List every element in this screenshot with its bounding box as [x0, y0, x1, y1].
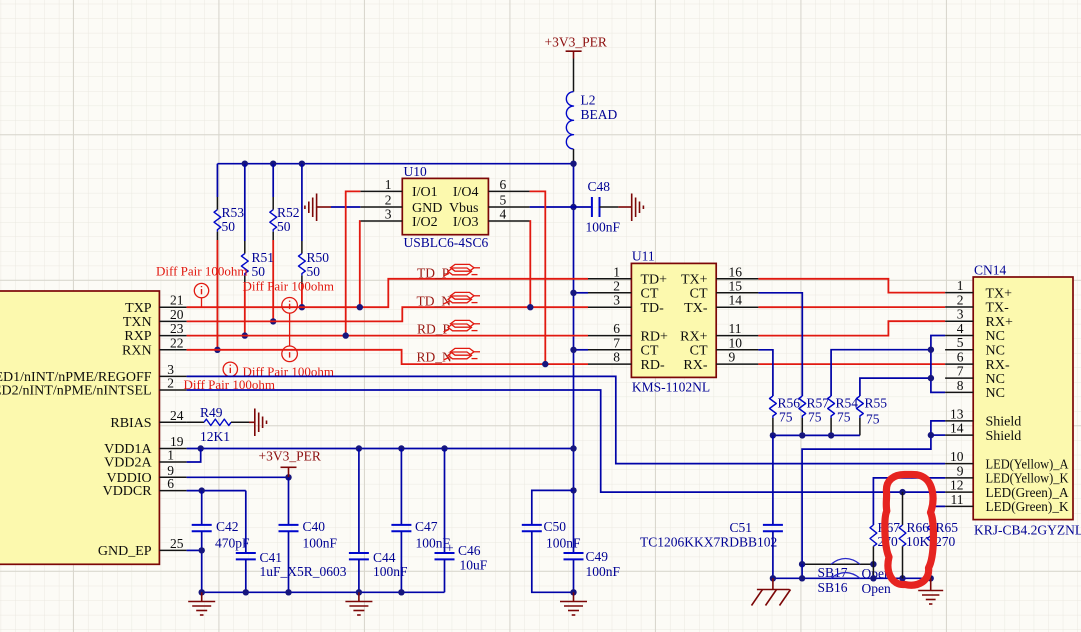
svg-text:75: 75 [866, 412, 880, 427]
svg-text:3: 3 [957, 307, 964, 322]
wire bottom ground bus [199, 589, 445, 595]
svg-text:CN14: CN14 [974, 263, 1007, 278]
svg-text:TX+: TX+ [681, 273, 708, 288]
U10 pin 3 [360, 207, 402, 222]
PHY pin 23 RXP [159, 321, 186, 336]
svg-text:+3V3_PER: +3V3_PER [259, 449, 321, 464]
svg-text:LED(Green)_A: LED(Green)_A [986, 486, 1070, 501]
capacitor C46 10uF polarized [435, 449, 488, 593]
U11 pin 3 [588, 293, 631, 308]
svg-text:2: 2 [167, 376, 174, 391]
svg-text:Open: Open [862, 581, 891, 596]
resistor R53 50 [214, 164, 244, 240]
svg-text:LED2/nINT/nPME/nINTSEL: LED2/nINT/nPME/nINTSEL [0, 384, 152, 399]
wire RXN to RD_N [187, 350, 588, 364]
svg-text:6: 6 [167, 476, 174, 491]
node Vbus/C48 junction [570, 204, 576, 210]
resistor R57 75 [758, 293, 829, 436]
U11 pin 10 [716, 335, 758, 350]
svg-text:10uF: 10uF [460, 558, 488, 573]
directive Diff Pair 100ohm (LED1 row) [223, 362, 334, 379]
CN14 pin 10 [945, 449, 973, 464]
U10 pin 2 [360, 193, 402, 208]
PHY pin 24 RBIAS [159, 408, 186, 423]
svg-text:R57: R57 [807, 396, 830, 411]
wire TXN to TD_N [187, 307, 588, 321]
svg-text:TD_P: TD_P [417, 266, 449, 281]
svg-text:100nF: 100nF [586, 564, 621, 579]
svg-text:RD_P: RD_P [417, 322, 450, 337]
capacitor C50 100nF [522, 490, 581, 592]
svg-text:CT: CT [641, 344, 659, 359]
U11 pin 11 [716, 321, 758, 336]
svg-text:VDD2A: VDD2A [104, 456, 152, 471]
CN14 pin 2 [945, 293, 973, 308]
U10 pin 4 [488, 207, 529, 222]
ground earth (U10 GND pin2) [305, 194, 360, 222]
capacitor C51 TC1206KKX7RDBB102 [640, 435, 783, 578]
svg-text:TD_N: TD_N [417, 294, 452, 309]
power port +3V3_PER (top) [545, 35, 607, 59]
svg-text:9: 9 [957, 463, 964, 478]
U11 pin 1 [588, 264, 631, 279]
svg-text:R50: R50 [307, 250, 330, 265]
net label TD_N [417, 292, 481, 308]
svg-text:RD_N: RD_N [417, 350, 453, 365]
wire NC pins 4-5-7-8 tie [928, 336, 945, 393]
CN14 pin 4 [945, 321, 973, 336]
U11 pin 9 [716, 350, 758, 365]
wire power to L2 [573, 59, 575, 92]
svg-text:8: 8 [613, 350, 620, 365]
ground earth (RBIAS) [249, 409, 267, 437]
svg-text:Vbus: Vbus [449, 201, 479, 216]
svg-text:20: 20 [170, 307, 184, 322]
svg-text:U11: U11 [632, 249, 655, 264]
svg-text:RX-: RX- [986, 358, 1010, 373]
svg-text:R49: R49 [200, 405, 223, 420]
resistor R52 50 [270, 164, 300, 240]
wire Shield pins 13-14 to SB17 [802, 421, 945, 564]
capacitor C49 100nF [564, 549, 621, 579]
CN14 pin 3 [945, 307, 973, 322]
svg-text:Diff Pair 100ohm: Diff Pair 100ohm [156, 264, 247, 279]
svg-text:R54: R54 [836, 396, 859, 411]
ground GND (C49) [560, 592, 587, 615]
svg-text:CT: CT [690, 287, 708, 302]
CN14 pin 13 [945, 406, 973, 421]
wire TX- to CN14 pin2 [758, 306, 945, 308]
svg-text:2: 2 [613, 278, 620, 293]
resistor R49 12K1 [187, 405, 249, 444]
CN14 pin 9 [945, 463, 973, 478]
wire RX+ to CN14 pin3 [758, 321, 945, 335]
capacitor C44 100nF [349, 449, 408, 593]
svg-text:KRJ-CB4.2GYZNL: KRJ-CB4.2GYZNL [974, 523, 1081, 538]
svg-text:TXP: TXP [125, 301, 152, 316]
svg-text:TX+: TX+ [986, 286, 1013, 301]
svg-text:50: 50 [307, 264, 321, 279]
U11 pin 2 [588, 278, 631, 293]
U11 pin 8 [588, 350, 631, 365]
svg-text:GND_EP: GND_EP [98, 544, 152, 559]
svg-text:100nF: 100nF [303, 535, 338, 550]
svg-text:1: 1 [385, 177, 392, 192]
svg-text:100nF: 100nF [373, 564, 408, 579]
svg-text:50: 50 [277, 219, 291, 234]
svg-text:I/O1: I/O1 [412, 185, 438, 200]
svg-text:23: 23 [170, 321, 184, 336]
CN14 pin 11 [945, 492, 973, 507]
PHY pin 1 VDD2A [159, 448, 186, 463]
resistor R55 75 [857, 378, 931, 435]
wire U11 pin7 CT to +3V3 [570, 347, 588, 353]
wire R53 to RXN [214, 240, 220, 353]
svg-text:TC1206KKX7RDBB102: TC1206KKX7RDBB102 [640, 534, 777, 549]
CN14 pin 7 [945, 364, 973, 379]
wire TXP to TD_P [187, 279, 588, 307]
net label RD_P [417, 320, 480, 336]
svg-text:8: 8 [957, 378, 964, 393]
capacitor C40 100nF [279, 477, 338, 592]
wire R52 to TXN [270, 240, 276, 325]
capacitor C41 1uF [236, 491, 347, 593]
svg-text:C46: C46 [458, 543, 481, 558]
svg-text:270: 270 [935, 534, 956, 549]
svg-text:4: 4 [500, 207, 507, 222]
svg-text:RX-: RX- [683, 358, 707, 373]
svg-text:C40: C40 [303, 519, 326, 534]
svg-text:12: 12 [950, 478, 964, 493]
svg-text:R66: R66 [907, 520, 930, 535]
CN14 pin 14 [945, 421, 973, 436]
svg-text:5: 5 [500, 193, 507, 208]
svg-text:3: 3 [613, 293, 620, 308]
svg-text:+3V3_PER: +3V3_PER [545, 35, 607, 50]
svg-text:10K: 10K [906, 534, 930, 549]
wire VDD1A bus [187, 445, 577, 451]
svg-text:RX+: RX+ [680, 329, 707, 344]
svg-text:RD-: RD- [641, 358, 665, 373]
svg-text:R51: R51 [252, 250, 275, 265]
capacitor C42 470pF [192, 491, 250, 593]
wire GND_EP [187, 547, 205, 553]
wire LED1 to CN14 pin10 [187, 376, 946, 463]
CN14 pin 5 [945, 335, 973, 350]
svg-text:25: 25 [170, 536, 184, 551]
svg-text:TX-: TX- [986, 301, 1010, 316]
svg-text:TXN: TXN [123, 315, 152, 330]
PHY pin 19 VDD1A [159, 434, 186, 449]
wire VDDIO [187, 474, 292, 480]
svg-text:NC: NC [986, 329, 1005, 344]
svg-text:5: 5 [957, 335, 964, 350]
PHY pin 21 TXP [159, 293, 186, 308]
CN14 pin 6 [945, 350, 973, 365]
svg-text:R53: R53 [222, 205, 245, 220]
CN14 pin 8 [945, 378, 973, 393]
svg-text:C44: C44 [373, 550, 396, 565]
wire R50 to TXP [299, 284, 305, 310]
inductor L2 BEAD [566, 92, 617, 149]
directive Diff Pair 100ohm (pair marker) [243, 279, 334, 362]
svg-text:75: 75 [837, 410, 851, 425]
svg-text:RD+: RD+ [641, 329, 668, 344]
svg-text:TD+: TD+ [641, 273, 668, 288]
svg-text:U10: U10 [404, 164, 427, 179]
svg-text:24: 24 [170, 408, 184, 423]
CN14 pin 1 [945, 278, 973, 293]
wire R51 to RXP [242, 284, 248, 339]
power port +3V3_PER (VDDIO) [259, 449, 321, 478]
wire SB17 row to SB16 row [802, 564, 873, 578]
wire U10 Vbus to +3V3 [530, 206, 574, 208]
svg-text:I/O2: I/O2 [412, 215, 438, 230]
svg-text:L2: L2 [581, 93, 596, 108]
wire main +3V3 vertical [573, 164, 575, 593]
svg-text:470pF: 470pF [215, 535, 250, 550]
resistor R50 50 [299, 164, 330, 284]
svg-text:CT: CT [641, 287, 659, 302]
svg-text:C49: C49 [586, 549, 609, 564]
resistor R65 270 [927, 506, 958, 578]
U10 pin 1 [360, 177, 402, 192]
PHY pin 25 GND_EP [159, 536, 186, 551]
resistor R56 75 [758, 350, 800, 436]
svg-text:SB16: SB16 [818, 580, 848, 595]
svg-text:15: 15 [729, 278, 743, 293]
ground GND (R65) [918, 578, 943, 604]
svg-text:6: 6 [613, 321, 620, 336]
svg-text:R52: R52 [277, 205, 300, 220]
svg-text:NC: NC [986, 343, 1005, 358]
svg-text:NC: NC [986, 386, 1005, 401]
svg-text:3: 3 [385, 207, 392, 222]
net label TD_P [417, 264, 480, 280]
wire CT termination bus [770, 432, 860, 438]
svg-text:7: 7 [957, 364, 964, 379]
PHY pin 3 LED1 [159, 362, 186, 377]
wire TX+ to CN14 pin1 [758, 279, 945, 293]
ground chassis (C51) [752, 578, 791, 605]
svg-text:CT: CT [690, 344, 708, 359]
svg-text:14: 14 [729, 293, 743, 308]
svg-text:C42: C42 [216, 519, 239, 534]
svg-text:BEAD: BEAD [581, 107, 618, 122]
svg-text:RBIAS: RBIAS [110, 416, 151, 431]
wire termination rail [217, 161, 576, 167]
svg-text:C51: C51 [730, 520, 753, 535]
solder bridge SB17 Open [799, 559, 891, 582]
U11 pin 7 [588, 335, 631, 350]
wire U10 pin4 to TD_N net [527, 221, 533, 310]
svg-text:50: 50 [252, 264, 266, 279]
svg-text:C48: C48 [588, 179, 611, 194]
solder bridge SB16 Open [770, 573, 934, 596]
svg-text:Shield: Shield [986, 429, 1022, 444]
svg-text:R67: R67 [878, 520, 901, 535]
svg-text:1uF_X5R_0603: 1uF_X5R_0603 [260, 564, 347, 579]
resistor R51 50 [241, 164, 274, 284]
svg-text:C41: C41 [260, 550, 283, 565]
wire L2 to rail [573, 149, 575, 164]
svg-text:R56: R56 [778, 396, 801, 411]
U10 pin 5 [488, 193, 529, 208]
svg-text:10: 10 [729, 335, 743, 350]
wire RXP to RD_P [187, 335, 588, 337]
svg-text:14: 14 [950, 421, 964, 436]
svg-text:11: 11 [951, 492, 964, 507]
ground earth (C48) [618, 194, 643, 222]
svg-text:1: 1 [613, 264, 620, 279]
red marker ellipse annotation [885, 474, 934, 585]
wire RX- to CN14 pin6 [758, 363, 945, 365]
svg-text:C50: C50 [544, 519, 567, 534]
svg-text:10: 10 [950, 449, 964, 464]
PHY pin 6 VDDCR [159, 476, 186, 491]
svg-text:1: 1 [957, 278, 964, 293]
svg-text:RX+: RX+ [986, 315, 1013, 330]
U11 pin 6 [588, 321, 631, 336]
U10 pin 6 [488, 177, 529, 192]
PHY pin 20 TXN [159, 307, 186, 322]
net label RD_N [417, 348, 481, 364]
svg-text:2: 2 [957, 293, 964, 308]
svg-text:R65: R65 [936, 520, 959, 535]
svg-text:VDDCR: VDDCR [103, 484, 153, 499]
svg-text:2: 2 [385, 193, 392, 208]
svg-text:LED(Yellow)_K: LED(Yellow)_K [986, 472, 1069, 487]
svg-text:TD-: TD- [641, 301, 665, 316]
directive Diff Pair 100ohm (TXP) [156, 264, 247, 308]
svg-text:1: 1 [167, 448, 174, 463]
svg-text:13: 13 [950, 406, 964, 421]
wire LED2 to CN14 pin12 [187, 390, 946, 495]
svg-text:LED(Green)_K: LED(Green)_K [986, 500, 1069, 515]
svg-text:21: 21 [170, 293, 184, 308]
svg-text:75: 75 [808, 410, 822, 425]
svg-text:I/O3: I/O3 [453, 215, 479, 230]
svg-text:9: 9 [729, 350, 736, 365]
svg-text:KMS-1102NL: KMS-1102NL [632, 380, 710, 395]
svg-text:75: 75 [779, 410, 793, 425]
resistor R66 10K [899, 492, 929, 578]
PHY IC block (left, partially off-canvas) [0, 291, 159, 564]
resistor R67 270 [870, 478, 945, 564]
svg-text:LED(Yellow)_A: LED(Yellow)_A [986, 457, 1070, 472]
svg-text:22: 22 [170, 335, 184, 350]
node main vertical bottom [570, 589, 576, 595]
wire U10 pin1 to RD_P net [343, 191, 361, 338]
CN14 pin 12 [945, 478, 973, 493]
capacitor C48 100nF [574, 179, 621, 234]
svg-text:RXP: RXP [124, 329, 151, 344]
ground GND (left) [188, 592, 215, 615]
PHY pin 2 LED2 [159, 376, 186, 391]
svg-text:50: 50 [222, 219, 236, 234]
svg-text:12K1: 12K1 [200, 429, 230, 444]
svg-text:I/O4: I/O4 [453, 185, 479, 200]
ground GND (C44) [345, 592, 372, 615]
resistor R54 75 [828, 350, 931, 436]
capacitor C47 100nF [391, 449, 450, 593]
wire U10 pin3 to TD_P net [357, 221, 363, 310]
svg-text:4: 4 [957, 321, 964, 336]
svg-text:TX-: TX- [684, 301, 708, 316]
svg-text:R55: R55 [865, 396, 888, 411]
svg-text:USBLC6-4SC6: USBLC6-4SC6 [404, 235, 489, 250]
wire U11 pin2 CT to +3V3 [570, 290, 588, 296]
svg-text:11: 11 [729, 321, 742, 336]
svg-text:+: + [446, 541, 454, 556]
svg-text:RXN: RXN [122, 343, 152, 358]
svg-text:Diff Pair 100ohm: Diff Pair 100ohm [243, 279, 334, 294]
node C50 branch [570, 487, 576, 493]
svg-text:GND: GND [412, 201, 442, 216]
svg-text:100nF: 100nF [546, 535, 581, 550]
connector CN14 body KRJ-CB4.2GYZNL [973, 263, 1081, 538]
svg-text:6: 6 [500, 177, 507, 192]
svg-text:Shield: Shield [986, 415, 1022, 430]
svg-text:100nF: 100nF [586, 219, 621, 234]
wire U10 pin6 to RD_N net [530, 191, 549, 367]
svg-text:C47: C47 [415, 519, 438, 534]
U11 pin 14 [716, 293, 758, 308]
transformer U11 body KMS-1102NL [631, 249, 716, 395]
U11 pin 15 [716, 278, 758, 293]
U11 pin 16 [716, 264, 758, 279]
PHY pin 9 VDDIO [159, 463, 186, 478]
svg-text:7: 7 [613, 335, 620, 350]
wire VDD2A riser [187, 449, 201, 463]
wire VDDCR [187, 487, 246, 493]
op-amp U10 body USBLC6-4SC6 [402, 164, 488, 250]
svg-text:6: 6 [957, 350, 964, 365]
PHY pin 22 RXN [159, 335, 186, 350]
svg-text:16: 16 [729, 264, 743, 279]
svg-text:NC: NC [986, 372, 1005, 387]
